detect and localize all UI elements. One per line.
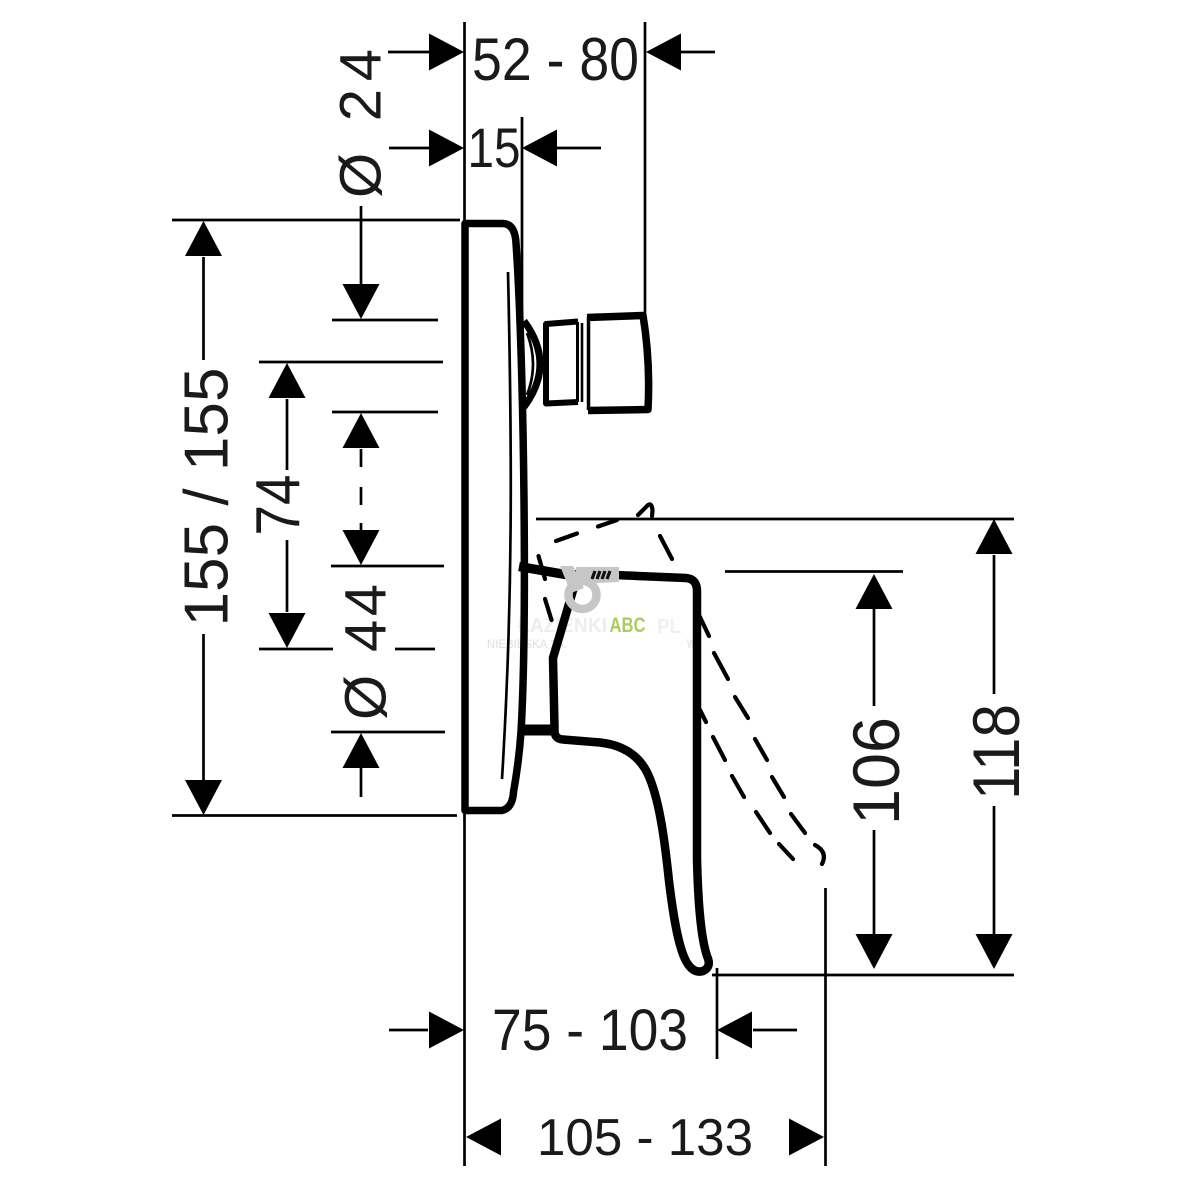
extension line V2 (front of plate, 15mm) [521,117,524,322]
top reference line for 118 [536,518,1014,521]
dimension 118 [993,555,996,934]
74 top tick (knob axis) [259,361,443,364]
watermark logo diagonal band [560,566,584,593]
svg-text:ABC: ABC [610,613,646,637]
watermark logo ring [569,581,597,609]
74 bottom tick (handle axis) [259,648,333,651]
dimension 155/155 [202,257,205,780]
lever handle (open position, dashed) [539,504,824,864]
dimension O24 [360,206,363,505]
svg-text:75 - 103: 75 - 103 [492,998,688,1063]
svg-text:118: 118 [959,704,1033,800]
dimension 75-103 [389,1029,797,1032]
plate bottom reference line [172,814,457,817]
escutcheon plate side view [465,224,524,811]
knob bottom tick [332,411,438,414]
watermark logo hatch marks [592,571,610,579]
svg-text:155 / 155: 155 / 155 [173,368,242,627]
diverter knob cap [587,316,649,411]
plate top reference line [172,219,460,222]
svg-text:74: 74 [244,475,313,536]
svg-text:Ø 44: Ø 44 [334,584,399,720]
plate inner dome line [502,272,511,779]
knob top tick [332,319,438,322]
lever handle (closed position) [553,574,709,972]
diverter knob neck [524,316,649,411]
svg-text:106: 106 [839,717,913,825]
dimension 105-133 [466,1119,501,1156]
svg-text:15: 15 [468,116,521,179]
sleeve bottom tick (O44) [331,731,445,734]
handle lower connector bar [518,725,556,736]
dimension O44 [360,523,363,797]
dimension 52-80 [388,51,715,54]
svg-text:PL: PL [657,615,681,638]
handle upper connector bar [519,567,574,577]
wall reference line V1 [463,22,466,1166]
dimension 15 [389,147,601,150]
svg-text:105 - 133: 105 - 133 [537,1109,753,1167]
dimension 74 [286,399,289,612]
watermark logo top band [576,567,619,584]
extension line V7 (open handle tip 105-133) [824,888,827,1166]
dimension 106 [873,609,876,934]
diverter knob small cylinder [546,322,578,404]
top reference line for 106 [725,570,903,573]
extension line V3 (knob end, 52-80) [644,22,647,316]
extension line V6 (handle tip 75-103) [716,968,719,1059]
svg-text:52 - 80: 52 - 80 [472,26,639,93]
sleeve top tick (O44) [331,565,444,568]
bottom reference line for 106 and 118 [712,974,1014,977]
